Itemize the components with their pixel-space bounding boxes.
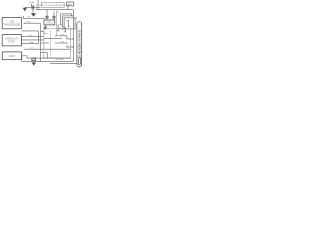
svg-text:CLK: CLK xyxy=(30,48,35,50)
svg-text:OSC: OSC xyxy=(60,34,65,36)
svg-text:UART: UART xyxy=(9,55,16,58)
svg-text:SDA: SDA xyxy=(29,41,34,44)
svg-text:uPD78F0730 EVALUATION BOARD: uPD78F0730 EVALUATION BOARD xyxy=(35,4,71,7)
svg-text:J5 HEADER 40 PIN IO: J5 HEADER 40 PIN IO xyxy=(78,29,82,59)
svg-text:PORT: PORT xyxy=(8,41,15,44)
svg-text:3.3V: 3.3V xyxy=(29,1,35,5)
svg-text:RXD: RXD xyxy=(27,22,32,24)
svg-text:TXD: TXD xyxy=(27,16,32,18)
svg-text:GND: GND xyxy=(32,59,37,61)
svg-text:TRANSCEIVER: TRANSCEIVER xyxy=(3,24,20,27)
svg-text:6J-HEX: 6J-HEX xyxy=(56,58,65,61)
svg-text:LOGIC: LOGIC xyxy=(46,22,53,24)
